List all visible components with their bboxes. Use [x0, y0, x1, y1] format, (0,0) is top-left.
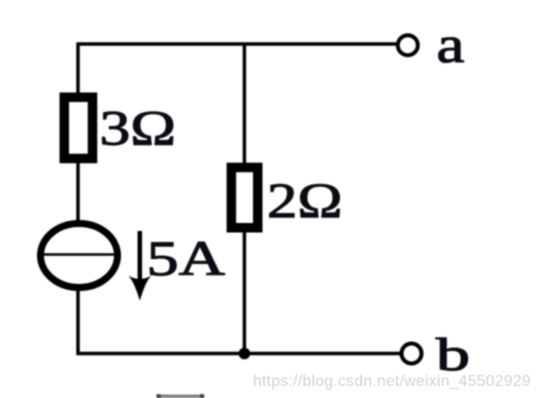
wire: top horizontal from left branch to terminal a [77, 42, 399, 46]
terminal b circle [402, 344, 422, 364]
svg-text:a: a [437, 17, 465, 74]
svg-text:5A: 5A [147, 231, 226, 286]
current source IS circle [41, 224, 118, 288]
wire: left vertical branch [76, 43, 80, 356]
current arrow head [128, 276, 151, 301]
resistor R 2ohm [231, 167, 257, 227]
wire: middle vertical branch [243, 44, 247, 354]
wire: bottom horizontal to terminal b [77, 352, 402, 356]
current arrow shaft [138, 231, 143, 285]
watermark [253, 373, 531, 391]
svg-text:3Ω: 3Ω [100, 100, 177, 155]
svg-text:2Ω: 2Ω [267, 173, 343, 228]
partial figure edge bottom [158, 394, 203, 398]
terminal a circle [398, 35, 418, 55]
resistor R 3ohm [64, 97, 92, 158]
junction dot [239, 348, 251, 360]
current source bar [43, 253, 115, 256]
